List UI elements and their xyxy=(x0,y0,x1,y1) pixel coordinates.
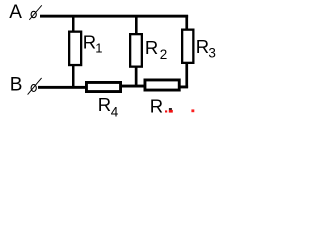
svg-text:4: 4 xyxy=(111,104,119,119)
resistor R5 xyxy=(145,80,179,90)
wire: R3 top drop (corner) xyxy=(185,15,188,30)
resistor R3 xyxy=(182,30,193,63)
resistor R2 xyxy=(130,34,142,67)
wire: R1 top drop xyxy=(72,16,75,31)
wire: R1 bottom drop xyxy=(72,65,75,89)
label R2 xyxy=(145,37,167,62)
terminal A xyxy=(29,5,42,19)
red mark: dot of R5 subscript xyxy=(165,110,167,112)
label R4 xyxy=(98,94,119,119)
svg-text:3: 3 xyxy=(208,46,216,61)
svg-text:A: A xyxy=(9,2,22,23)
wire: bottom bus B to R4 xyxy=(38,86,86,89)
wire: R3 bottom drop xyxy=(185,62,188,88)
wire: R2 bottom drop xyxy=(135,66,138,87)
red mark: square of R5 subscript with dark top xyxy=(169,108,173,113)
svg-text:R: R xyxy=(196,36,209,57)
terminal B xyxy=(28,78,42,95)
resistor R4 xyxy=(86,82,120,91)
resistor R1 xyxy=(69,32,81,65)
wire: R2 top drop xyxy=(135,16,138,34)
label R5 xyxy=(150,95,163,116)
label R3 xyxy=(196,36,216,61)
node B label xyxy=(10,74,23,95)
wire: R5 to R3 corner segment xyxy=(180,86,189,89)
wire: top bus from A to R3 corner xyxy=(40,15,188,18)
wire: R4 to R5 segment xyxy=(121,85,144,88)
svg-text:R: R xyxy=(145,37,158,58)
svg-text:B: B xyxy=(10,74,23,95)
svg-text:R: R xyxy=(83,32,96,53)
svg-text:R: R xyxy=(98,94,111,115)
node A label xyxy=(9,2,22,23)
label R1 xyxy=(83,32,103,56)
svg-text:2: 2 xyxy=(160,47,168,62)
svg-text:1: 1 xyxy=(95,40,102,55)
svg-text:R: R xyxy=(150,95,163,116)
red mark: stray dot right of R5 label xyxy=(191,109,194,112)
